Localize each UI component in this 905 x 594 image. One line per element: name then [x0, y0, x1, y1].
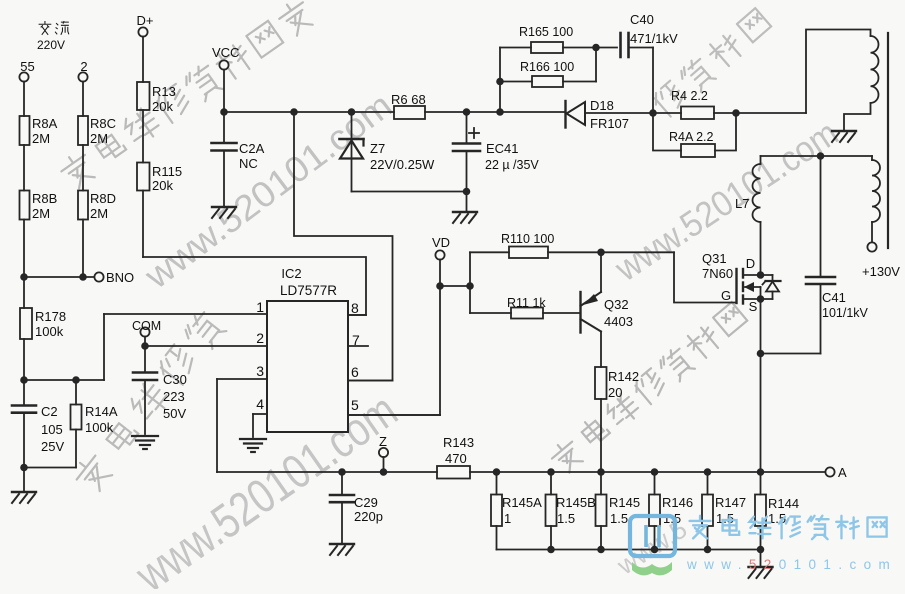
svg-text:Q31: Q31 — [702, 251, 727, 266]
svg-text:C30: C30 — [163, 372, 187, 387]
svg-text:C41: C41 — [822, 290, 846, 305]
svg-text:7N60: 7N60 — [702, 266, 733, 281]
svg-text:LD7577R: LD7577R — [280, 283, 337, 298]
svg-text:R165 100: R165 100 — [519, 25, 573, 39]
svg-text:VD: VD — [432, 235, 450, 250]
svg-text:4: 4 — [256, 396, 264, 412]
svg-text:R8A: R8A — [32, 116, 58, 131]
svg-text:1: 1 — [504, 511, 511, 526]
svg-text:www.520101.com: www.520101.com — [686, 557, 897, 572]
svg-text:2M: 2M — [32, 206, 50, 221]
svg-text:5: 5 — [351, 397, 359, 413]
svg-text:R8C: R8C — [90, 116, 116, 131]
svg-text:22V/0.25W: 22V/0.25W — [370, 157, 435, 172]
svg-text:R6 68: R6 68 — [391, 92, 426, 107]
svg-text:471/1kV: 471/1kV — [630, 31, 678, 46]
svg-text:NC: NC — [239, 156, 258, 171]
svg-text:C2: C2 — [41, 404, 58, 419]
svg-text:R143: R143 — [443, 435, 474, 450]
svg-text:50V: 50V — [163, 406, 186, 421]
svg-text:COM: COM — [132, 319, 161, 333]
svg-text:R142: R142 — [608, 369, 639, 384]
svg-text:223: 223 — [163, 389, 185, 404]
svg-text:R147: R147 — [715, 495, 746, 510]
svg-text:R166 100: R166 100 — [520, 60, 574, 74]
svg-text:8: 8 — [351, 300, 359, 316]
svg-text:220V: 220V — [37, 38, 65, 52]
svg-text:L7: L7 — [735, 196, 749, 211]
svg-text:2M: 2M — [90, 131, 108, 146]
svg-text:EC41: EC41 — [486, 141, 519, 156]
svg-text:C2A: C2A — [239, 141, 265, 156]
svg-text:G: G — [721, 288, 731, 303]
svg-text:D+: D+ — [137, 13, 154, 28]
svg-text:R144: R144 — [768, 496, 799, 511]
svg-text:2: 2 — [80, 59, 87, 74]
svg-text:101/1kV: 101/1kV — [822, 306, 869, 320]
svg-text:470: 470 — [445, 451, 467, 466]
svg-text:20: 20 — [608, 385, 622, 400]
svg-text:1.5: 1.5 — [557, 511, 575, 526]
svg-text:6: 6 — [351, 364, 359, 380]
svg-text:R178: R178 — [35, 309, 66, 324]
svg-text:A: A — [838, 465, 847, 480]
svg-text:R145: R145 — [609, 495, 640, 510]
svg-text:D18: D18 — [590, 98, 614, 113]
svg-text:R11 1k: R11 1k — [507, 296, 546, 310]
svg-text:1: 1 — [256, 299, 264, 315]
svg-text:VCC: VCC — [212, 45, 239, 60]
svg-text:2M: 2M — [90, 206, 108, 221]
svg-text:R110 100: R110 100 — [501, 232, 554, 246]
svg-text:R145B: R145B — [556, 495, 596, 510]
svg-text:C29: C29 — [354, 495, 378, 510]
svg-text:D: D — [746, 256, 755, 271]
svg-text:20k: 20k — [152, 99, 173, 114]
svg-text:R146: R146 — [662, 495, 693, 510]
svg-text:Z7: Z7 — [370, 141, 385, 156]
svg-text:R145A: R145A — [502, 495, 542, 510]
svg-text:1.5: 1.5 — [716, 511, 734, 526]
svg-text:105: 105 — [41, 422, 63, 437]
svg-text:IC2: IC2 — [281, 266, 301, 281]
svg-text:Q32: Q32 — [604, 297, 629, 312]
svg-text:25V: 25V — [41, 439, 64, 454]
svg-text:1.5: 1.5 — [610, 511, 628, 526]
svg-text:S: S — [749, 299, 758, 314]
svg-text:7: 7 — [352, 332, 360, 348]
svg-text:2: 2 — [256, 330, 264, 346]
svg-text:2M: 2M — [32, 131, 50, 146]
svg-text:R14A: R14A — [85, 404, 118, 419]
svg-text:R4A 2.2: R4A 2.2 — [669, 130, 714, 144]
svg-text:220p: 220p — [354, 509, 383, 524]
svg-text:C40: C40 — [630, 12, 654, 27]
svg-text:Z: Z — [379, 434, 387, 449]
svg-text:100k: 100k — [35, 324, 64, 339]
svg-text:3: 3 — [256, 363, 264, 379]
svg-text:FR107: FR107 — [590, 116, 629, 131]
svg-text:20k: 20k — [152, 178, 173, 193]
svg-text:22 µ /35V: 22 µ /35V — [485, 158, 539, 172]
svg-text:R8B: R8B — [32, 191, 57, 206]
svg-text:R4 2.2: R4 2.2 — [671, 89, 708, 103]
svg-text:100k: 100k — [85, 420, 114, 435]
svg-text:R13: R13 — [152, 84, 176, 99]
svg-text:R115: R115 — [152, 164, 182, 179]
svg-text:R8D: R8D — [90, 191, 116, 206]
svg-text:55: 55 — [20, 59, 34, 74]
svg-text:4403: 4403 — [604, 314, 633, 329]
svg-text:+130V: +130V — [862, 264, 900, 279]
svg-text:BNO: BNO — [106, 270, 134, 285]
